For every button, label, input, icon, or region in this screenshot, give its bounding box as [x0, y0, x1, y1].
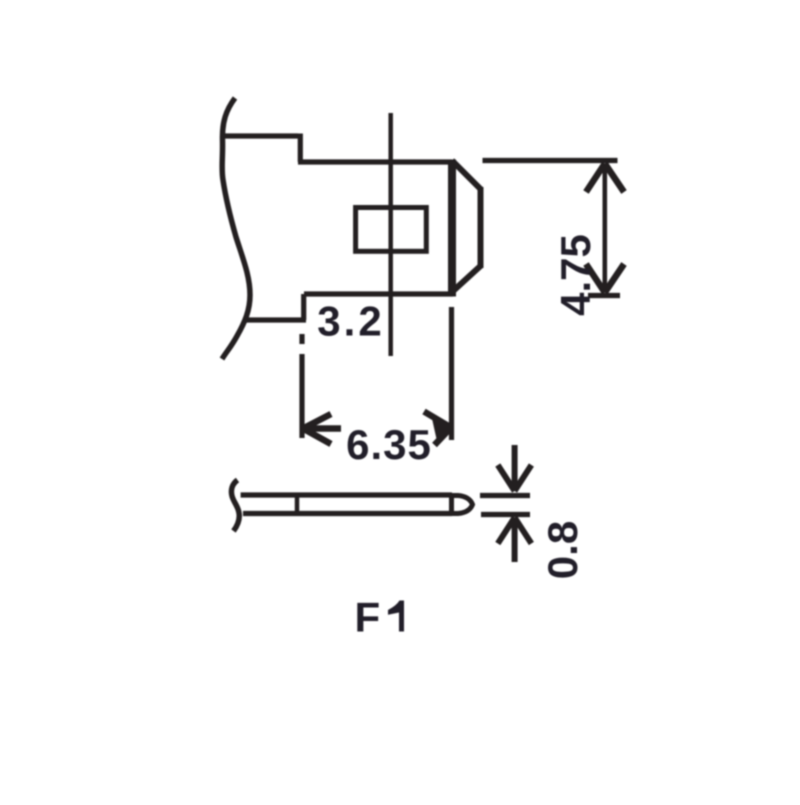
svg-text:0.8: 0.8: [539, 521, 586, 579]
dim 4.75 top arrow: [586, 164, 624, 193]
dim 4.75 bottom extension line: [588, 293, 620, 298]
tab bottom-left edge: [244, 317, 306, 322]
dim 6.35 left arrow: [302, 414, 341, 444]
dim 6.35 right arrow: [424, 412, 451, 446]
dim 0.8 top extension line: [480, 493, 530, 498]
tab fold line (right vertical): [448, 160, 456, 297]
label F1 digit 1 (custom glyph): [388, 601, 404, 632]
side view left break squiggle: [231, 480, 239, 531]
side view bottom line: [243, 511, 452, 516]
side view rounded tip: [451, 496, 473, 514]
dim 4.75 top extension line: [483, 158, 618, 163]
hole rectangle: [356, 208, 427, 252]
tab step down-left: [301, 294, 306, 320]
dim 4.75 dimension line: [602, 164, 607, 292]
svg-text:4.75: 4.75: [552, 234, 599, 316]
break line (top view left edge): [222, 98, 250, 359]
svg-text:3.2: 3.2: [317, 298, 384, 345]
dim 6.35 right extension line: [449, 307, 454, 440]
svg-text:F: F: [355, 594, 381, 641]
tab step down: [298, 134, 303, 163]
side view top line: [241, 492, 452, 497]
centerline: [388, 113, 393, 356]
tab top chamfer: [452, 161, 481, 190]
dim 0.8 top arrow line: [498, 445, 532, 491]
tab bottom chamfer: [452, 266, 481, 293]
tab top-left edge: [223, 133, 298, 138]
side view tick: [295, 495, 300, 514]
dim 4.75 bottom arrow: [586, 264, 624, 293]
dim 0.8 bottom extension line: [481, 512, 530, 517]
tab bottom edge: [304, 291, 453, 296]
tab main top edge: [298, 159, 452, 164]
dim 6.35 left extension line: [299, 334, 304, 438]
dim 0.8 bottom arrow line: [498, 518, 532, 563]
svg-text:6.35: 6.35: [346, 421, 432, 468]
tab right edge: [478, 187, 484, 268]
